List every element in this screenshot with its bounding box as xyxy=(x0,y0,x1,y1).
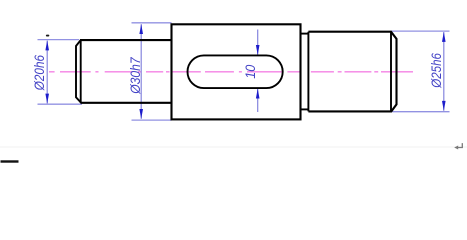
right section end-face line xyxy=(307,32,309,112)
dimension line d25h6 xyxy=(443,32,445,111)
svg-text:10: 10 xyxy=(242,65,258,79)
arrow d30 up xyxy=(139,24,143,34)
pilcrow return mark xyxy=(457,143,462,147)
relief neck bottom edge xyxy=(301,108,309,110)
keyway slot xyxy=(188,55,283,88)
middle section rectangle (d30) xyxy=(172,24,301,119)
extension line dim30 bottom xyxy=(132,119,172,121)
svg-text:Ø30h7: Ø30h7 xyxy=(127,56,143,94)
left chamfer line xyxy=(80,40,82,103)
document dash mark xyxy=(1,160,19,162)
relief neck top edge xyxy=(301,33,309,35)
svg-text:Ø20h6: Ø20h6 xyxy=(31,55,47,91)
right chamfer line xyxy=(390,32,392,112)
left section bottom edge xyxy=(81,102,173,104)
arrow d20 down xyxy=(45,94,49,104)
arrow d25 down xyxy=(442,101,446,111)
right section outline (d25 with chamfered end) xyxy=(308,32,396,112)
extension line dim25 top xyxy=(391,30,450,32)
keyway dim line 10 bottom segment xyxy=(257,89,259,112)
stray dot xyxy=(46,35,49,37)
arrow d30 down xyxy=(139,109,143,119)
centerline (pink dash-dot axis) xyxy=(49,71,413,73)
arrow key down xyxy=(256,45,260,55)
dimension line d20h6 xyxy=(46,41,48,104)
keyway dim line 10 top segment xyxy=(257,30,259,55)
shaft left section outline (d20 journal with chamfered end) xyxy=(76,40,81,103)
extension line dim20 bottom xyxy=(38,103,83,105)
arrow d25 up xyxy=(442,32,446,42)
arrow key up xyxy=(256,89,260,99)
svg-text:Ø25h6: Ø25h6 xyxy=(428,53,444,89)
arrow d20 up xyxy=(45,40,49,50)
extension line dim30 top xyxy=(132,22,172,24)
dimension line d30h7 xyxy=(140,24,142,119)
extension line dim25 bottom xyxy=(392,111,449,113)
faint paste boundary xyxy=(0,146,467,148)
left section top edge xyxy=(80,39,172,41)
extension line dim20 top xyxy=(38,39,80,41)
